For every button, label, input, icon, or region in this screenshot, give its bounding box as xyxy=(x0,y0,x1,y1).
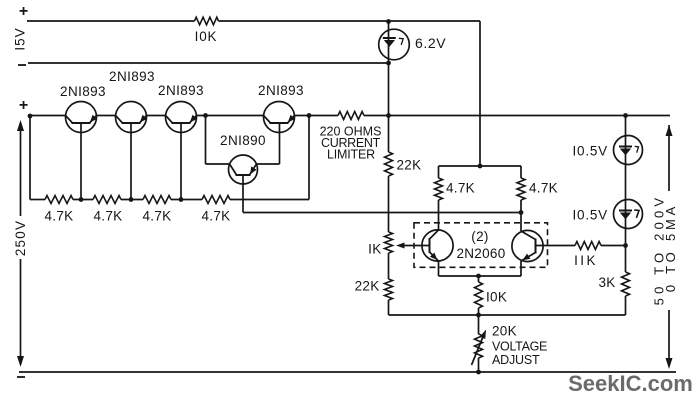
resistor R9 22K xyxy=(385,279,393,300)
svg-text:22K: 22K xyxy=(355,279,380,294)
svg-text:+: + xyxy=(19,97,28,114)
junction dot bottom rail / 20K xyxy=(476,370,481,375)
minus terminal 15V - xyxy=(18,64,26,66)
svg-text:ADJUST: ADJUST xyxy=(492,353,540,367)
wire 10K to lower node xyxy=(478,308,480,315)
label 2N1893 (Q4) xyxy=(258,83,304,98)
resistor R7 22K xyxy=(385,152,393,176)
wire zener 6.2V column xyxy=(388,21,390,116)
wire right collector drop xyxy=(520,200,522,231)
resistor R4 4.7K xyxy=(93,196,121,204)
junction dot header / right drop xyxy=(478,164,483,169)
svg-text:SeekIC.com: SeekIC.com xyxy=(568,371,693,396)
zener diode D2 10.5V xyxy=(614,136,643,165)
svg-text:3K: 3K xyxy=(598,275,615,290)
wire Q5 base lead down xyxy=(242,175,244,213)
wire Q3 base lead xyxy=(180,123,182,200)
label 0 TO 5MA xyxy=(663,203,678,292)
plus terminal 250V + xyxy=(19,97,28,114)
label 4.7K (R4) xyxy=(94,209,123,224)
label 22K (R9) xyxy=(355,279,380,294)
wire main bus (250V positive) xyxy=(30,115,670,117)
resistor R10 4.7K (left load) xyxy=(435,178,443,200)
wire 3K to lower node rail xyxy=(624,296,627,315)
label 220 OHMS CURRENT LIMITER xyxy=(320,125,382,162)
wire Q4 base lead xyxy=(279,123,281,164)
svg-text:20K: 20K xyxy=(492,324,517,339)
junction dot Q5 base / right collector xyxy=(519,210,524,215)
label 2N1893 (Q2) xyxy=(109,69,155,84)
potentiometer R8 1K xyxy=(385,232,393,253)
label 4.7K (R6) xyxy=(202,209,231,224)
svg-text:I0.5V: I0.5V xyxy=(572,208,608,223)
resistor R14 11K xyxy=(575,242,626,250)
wire Q5 base to error amp collector xyxy=(243,212,521,214)
transistor Q2 2N1893 xyxy=(116,102,148,133)
resistor R12 10K xyxy=(475,282,483,308)
transistor Q1 2N1893 xyxy=(66,102,98,133)
svg-text:4.7K: 4.7K xyxy=(446,181,475,196)
wire chain riser to bus xyxy=(308,116,310,200)
wire right drop from top rail xyxy=(479,21,481,166)
svg-text:I0K: I0K xyxy=(486,290,507,305)
junction dot bus / divider riser xyxy=(307,113,312,118)
transistor Q6b 2N2060 (right) xyxy=(512,230,543,261)
svg-text:2NI893: 2NI893 xyxy=(109,69,155,84)
svg-text:4.7K: 4.7K xyxy=(202,209,231,224)
svg-text:IK: IK xyxy=(368,242,381,257)
junction dot bus node Q3-Q4 xyxy=(203,113,208,118)
transistor Q4 2N1893 xyxy=(264,102,296,133)
label 22K (R7) xyxy=(397,158,422,173)
junction dot chain / Q1 base xyxy=(79,197,84,202)
wire load resistor header xyxy=(439,166,522,178)
label 6.2V xyxy=(415,35,446,51)
wire emitters join xyxy=(439,261,522,276)
junction dot zener column / main bus xyxy=(386,113,391,118)
svg-text:4.7K: 4.7K xyxy=(45,209,74,224)
svg-text:I0K: I0K xyxy=(195,29,218,44)
wire Q6b base lead xyxy=(536,245,576,247)
junction dot chain / Q2 base xyxy=(129,197,134,202)
resistor R6 4.7K xyxy=(202,196,230,204)
transistor Q3 2N1893 xyxy=(166,102,198,133)
resistor R2 220 ohms current limiter xyxy=(338,112,364,120)
wire Q2 base lead xyxy=(130,123,132,200)
wire left divider column xyxy=(388,116,390,316)
label 4.7K (R11) xyxy=(529,181,558,196)
wire lower node rail xyxy=(389,314,626,316)
label 2N1893 (Q1) xyxy=(60,84,106,99)
measure arrow 250V (line) xyxy=(17,120,24,367)
label 3K xyxy=(598,275,615,290)
resistor R3 4.7K xyxy=(45,196,73,204)
wire emitter to 10K xyxy=(478,276,480,282)
resistor R5 4.7K xyxy=(143,196,171,204)
wire left collector drop xyxy=(438,200,440,230)
junction dot top rail / zener xyxy=(386,19,391,24)
label 10.5V (D2) xyxy=(572,144,608,159)
label 4.7K (R10) xyxy=(446,181,475,196)
wire 15V negative rail xyxy=(28,62,389,64)
wire zener node to 3K xyxy=(625,246,627,273)
minus terminal 250V - xyxy=(17,376,25,378)
wire bottom rail xyxy=(19,371,676,373)
svg-text:2NI893: 2NI893 xyxy=(60,84,106,99)
label 4.7K (R3) xyxy=(45,209,74,224)
svg-text:VOLTAGE: VOLTAGE xyxy=(492,340,547,354)
zener diode D1 6.2V xyxy=(379,29,410,60)
wire left rail down xyxy=(29,116,31,200)
svg-text:I5V: I5V xyxy=(12,27,27,50)
svg-text:0 TO 5MA: 0 TO 5MA xyxy=(663,203,678,292)
rheostat R13 20K voltage adjust xyxy=(472,330,487,366)
svg-text:22K: 22K xyxy=(397,158,422,173)
label 2N1893 (Q3) xyxy=(158,83,204,98)
label 10K xyxy=(195,29,218,44)
svg-text:+: + xyxy=(19,3,28,20)
wire Q5 emitter to Q4 base xyxy=(256,163,279,165)
label 15V xyxy=(12,27,27,50)
wire divider chain xyxy=(30,199,309,201)
label 20K VOLTAGE ADJUST xyxy=(492,324,547,368)
svg-text:(2): (2) xyxy=(471,229,488,244)
svg-text:250V: 250V xyxy=(13,220,28,256)
watermark SeekIC.com xyxy=(568,371,693,396)
svg-text:2NI890: 2NI890 xyxy=(220,133,266,148)
wire top positive rail (+15V) xyxy=(27,20,480,22)
label 11K xyxy=(574,253,598,268)
resistor R15 3K xyxy=(622,272,630,296)
label 10K (R12) xyxy=(486,290,507,305)
junction dot lower node xyxy=(476,313,481,318)
terminal dot 250V input xyxy=(28,114,33,119)
junction dot zener column / 11K xyxy=(623,243,628,248)
wire output zener column xyxy=(625,116,627,246)
zener diode D3 10.5V xyxy=(614,200,643,229)
svg-text:LIMITER: LIMITER xyxy=(327,148,375,162)
junction dot bus / zener column xyxy=(623,113,628,118)
label 50 TO 200V xyxy=(652,194,667,306)
label 4.7K (R5) xyxy=(143,209,172,224)
wire 20K to bottom rail xyxy=(478,358,480,372)
wire Q1 base lead xyxy=(80,123,82,200)
svg-text:4.7K: 4.7K xyxy=(529,181,558,196)
label 2N1890 xyxy=(220,133,266,148)
wire Q6a base to pot wiper (arrow) xyxy=(396,243,430,249)
wire node to 20K xyxy=(478,315,480,334)
svg-text:IIK: IIK xyxy=(574,253,598,268)
label 250V xyxy=(13,220,28,256)
measure arrow output (line) xyxy=(666,125,673,369)
svg-text:I0.5V: I0.5V xyxy=(572,144,608,159)
wire Q5 collector to bus node xyxy=(206,116,230,165)
svg-text:2N2060: 2N2060 xyxy=(456,246,505,261)
resistor R11 4.7K (right load) xyxy=(517,178,525,200)
label 2N2060 xyxy=(456,246,505,261)
transistor Q6a 2N2060 (left) xyxy=(422,230,453,261)
junction dot emitters xyxy=(476,274,481,279)
svg-text:4.7K: 4.7K xyxy=(143,209,172,224)
label (2) xyxy=(471,229,488,244)
plus terminal 15V + xyxy=(19,3,28,20)
dashed box (2) 2N2060 xyxy=(414,223,548,267)
resistor R1 10K (top rail) xyxy=(195,17,219,25)
junction dot zener / 15V rail xyxy=(386,61,391,66)
svg-text:4.7K: 4.7K xyxy=(94,209,123,224)
label 10.5V (D3) xyxy=(572,208,608,223)
junction dot chain / Q3 base xyxy=(179,197,184,202)
svg-text:2NI893: 2NI893 xyxy=(258,83,304,98)
label 1K xyxy=(368,242,381,257)
svg-text:2NI893: 2NI893 xyxy=(158,83,204,98)
svg-text:6.2V: 6.2V xyxy=(415,35,446,51)
transistor Q5 2N1890 xyxy=(229,155,258,184)
